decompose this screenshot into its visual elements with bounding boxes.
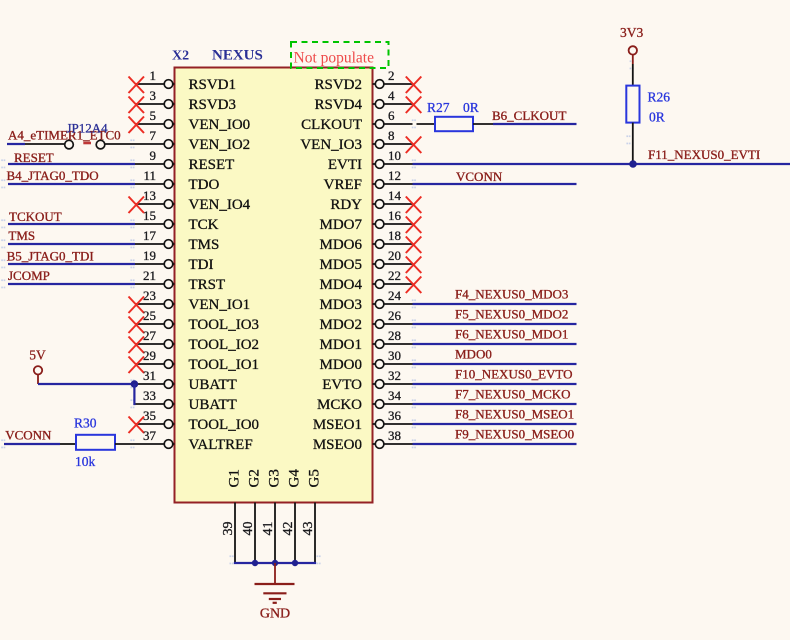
no-connect X pin 4 [406,97,422,114]
pin 34 (MCKO) right [317,388,413,413]
svg-text:B4_JTAG0_TDO: B4_JTAG0_TDO [7,168,99,183]
no-connect X pin 3 [129,97,145,114]
svg-text:13: 13 [143,188,156,203]
resistor R27 lead right [473,123,493,125]
svg-text:F4_NEXUS0_MDO3: F4_NEXUS0_MDO3 [455,287,568,302]
pin 25 (TOOL_IO3) left [135,308,259,333]
wire net B4_JTAG0_TDO [8,183,135,185]
pin 9 (RESET) left [135,148,234,173]
svg-text:TOOL_IO2: TOOL_IO2 [189,337,260,353]
pin 19 (TDI) left [135,248,214,273]
svg-text:21: 21 [143,268,156,283]
junction G2 [252,560,258,566]
svg-text:F6_NEXUS0_MDO1: F6_NEXUS0_MDO1 [455,327,568,342]
jumper JP12A4 open gap mark [83,142,91,145]
svg-text:MSEO0: MSEO0 [313,437,362,453]
svg-text:NEXUS: NEXUS [212,48,263,64]
svg-text:RSVD1: RSVD1 [189,77,237,93]
pin 26 (MDO2) right [319,308,412,333]
no-connect X pin 13 [129,197,145,214]
pin 21 (TRST) left [135,268,225,293]
svg-text:TMS: TMS [189,237,220,253]
pin 15 (TCK) left [135,208,219,233]
svg-text:3V3: 3V3 [620,25,643,40]
svg-text:F11_NEXUS0_EVTI: F11_NEXUS0_EVTI [648,147,760,162]
no-connect X pin 35 [129,417,145,434]
svg-text:10: 10 [388,148,401,163]
wire net TCKOUT [8,223,135,225]
svg-text:EVTI: EVTI [328,157,362,173]
jumper JP12A4 pin 2 [96,140,105,149]
svg-text:TMS: TMS [8,228,35,243]
svg-text:MDO6: MDO6 [319,237,362,253]
svg-text:16: 16 [388,208,402,223]
svg-text:G2: G2 [247,469,263,487]
svg-text:RSVD3: RSVD3 [189,97,237,113]
resistor R26 body [626,86,639,123]
junction R26 / EVTI net [629,160,637,168]
svg-text:11: 11 [143,168,156,183]
svg-text:20: 20 [388,248,401,263]
power port 5V [29,348,46,385]
svg-text:TOOL_IO1: TOOL_IO1 [189,357,260,373]
svg-text:B6_CLKOUT: B6_CLKOUT [492,108,566,123]
svg-text:G5: G5 [307,469,323,487]
svg-text:VEN_IO0: VEN_IO0 [189,117,251,133]
svg-text:MSEO1: MSEO1 [313,417,362,433]
svg-text:12: 12 [388,168,401,183]
svg-text:5V: 5V [29,348,46,363]
svg-text:MDO5: MDO5 [319,257,362,273]
svg-text:RESET: RESET [189,157,235,173]
wire net F10_NEXUS0_EVTO right [413,383,577,385]
svg-text:30: 30 [388,348,401,363]
pin 32 (EVTO) right [322,368,412,393]
svg-text:14: 14 [388,188,402,203]
note box Not populate [291,42,389,68]
pin 17 (TMS) left [135,228,219,253]
svg-text:VALTREF: VALTREF [189,437,253,453]
pin 1 (RSVD1) left [135,68,236,93]
no-connect X pin 23 [129,297,145,314]
svg-text:36: 36 [388,408,402,423]
resistor R30 lead left [60,443,76,445]
wire net JCOMP [8,283,135,285]
svg-text:MDO4: MDO4 [319,277,362,293]
svg-text:B5_JTAG0_TDI: B5_JTAG0_TDI [7,249,94,264]
pin 38 (MSEO0) right [313,428,413,453]
pin 33 (UBATT) left [135,388,237,413]
no-connect X pin 5 [129,117,145,134]
pin 42 (G4) bottom [281,469,303,563]
svg-text:TCKOUT: TCKOUT [9,209,62,224]
wire net RESET [8,163,135,165]
svg-text:JCOMP: JCOMP [8,268,50,283]
svg-text:TCK: TCK [189,217,219,233]
pin 7 (VEN_IO2) left [135,128,250,153]
svg-text:Not populate: Not populate [294,50,375,67]
svg-text:G3: G3 [267,469,283,487]
pin 20 (MDO5) right [319,248,412,273]
no-connect X pin 8 [406,137,422,154]
pin 16 (MDO7) right [319,208,412,233]
svg-text:VCONN: VCONN [456,169,503,184]
svg-text:TRST: TRST [189,277,226,293]
svg-text:1: 1 [150,68,157,83]
junction G3 [272,560,278,566]
svg-text:JP12A4: JP12A4 [67,120,109,135]
svg-text:8: 8 [388,128,395,143]
pin 40 (G2) bottom [241,469,263,563]
wire net VCONN left [4,443,60,445]
svg-text:2: 2 [388,68,395,83]
svg-text:MDO0: MDO0 [455,347,492,362]
svg-text:29: 29 [143,348,156,363]
svg-text:G4: G4 [287,469,303,488]
no-connect X pin 16 [406,217,422,234]
svg-text:UBATT: UBATT [189,377,237,393]
wire net VCONN right [413,183,577,185]
pin 12 (VREF) right [324,168,413,193]
svg-text:6: 6 [388,108,395,123]
svg-text:23: 23 [143,288,156,303]
pin 37 (VALTREF) left [135,428,253,453]
svg-text:UBATT: UBATT [189,397,237,413]
wire branch down to pin 33 [134,384,135,404]
pin 13 (VEN_IO4) left [135,188,251,213]
pin 39 (G1) bottom [221,469,243,563]
svg-text:RSVD2: RSVD2 [314,77,362,93]
svg-text:18: 18 [388,228,401,243]
svg-text:RESET: RESET [14,150,54,165]
wire 3V3 to R26 [632,64,634,86]
svg-text:VEN_IO2: VEN_IO2 [189,137,251,153]
wire net A4_eTIMER1_ETC0 [7,143,25,145]
svg-text:F7_NEXUS0_MCKO: F7_NEXUS0_MCKO [455,387,571,402]
pin 30 (MDO0) right [319,348,412,373]
svg-text:TOOL_IO3: TOOL_IO3 [189,317,260,333]
svg-text:28: 28 [388,328,401,343]
junction G4 [292,560,298,566]
svg-text:31: 31 [143,368,156,383]
pin 10 (EVTI) right [328,148,413,173]
svg-text:3: 3 [150,88,157,103]
svg-text:MDO1: MDO1 [319,337,362,353]
svg-text:34: 34 [388,388,402,403]
svg-text:VEN_IO3: VEN_IO3 [300,137,362,153]
wire ground bus [234,562,316,564]
pin 8 (VEN_IO3) right [300,128,412,153]
svg-text:MDO2: MDO2 [319,317,362,333]
no-connect X pin 29 [129,357,145,374]
svg-text:MDO7: MDO7 [319,217,362,233]
svg-text:TDI: TDI [189,257,214,273]
svg-text:19: 19 [143,248,156,263]
svg-text:0R: 0R [649,110,665,125]
wire net F7_NEXUS0_MCKO right [413,403,577,405]
svg-text:33: 33 [143,388,156,403]
svg-text:24: 24 [388,288,402,303]
svg-text:39: 39 [221,522,236,536]
svg-text:TOOL_IO0: TOOL_IO0 [189,417,260,433]
svg-text:38: 38 [388,428,401,443]
svg-text:32: 32 [388,368,401,383]
svg-text:MCKO: MCKO [317,397,362,413]
svg-text:X2: X2 [172,49,189,64]
wire net F11_NEXUS0_EVTI [413,163,790,165]
no-connect X pin 18 [406,237,422,254]
svg-text:40: 40 [241,522,256,536]
no-connect X pin 20 [406,257,422,274]
svg-text:TDO: TDO [189,177,220,193]
svg-text:MDO3: MDO3 [319,297,362,313]
svg-text:MDO0: MDO0 [319,357,362,373]
svg-text:F5_NEXUS0_MDO2: F5_NEXUS0_MDO2 [455,307,568,322]
svg-text:0R: 0R [463,100,479,115]
pin 2 (RSVD2) right [314,68,412,93]
svg-text:26: 26 [388,308,402,323]
wire net TMS [8,243,135,245]
svg-text:27: 27 [143,328,157,343]
wire net B6_CLKOUT [493,123,577,125]
junction at pin 31 branch [131,380,139,388]
wire net MDO0 right [413,363,577,365]
pin 29 (TOOL_IO1) left [135,348,259,373]
svg-text:VEN_IO1: VEN_IO1 [189,297,251,313]
jumper JP12A4 pin 1 lead [25,143,66,145]
wire net F5_NEXUS0_MDO2 right [413,323,577,325]
pin 11 (TDO) left [135,168,219,193]
svg-text:VREF: VREF [324,177,362,193]
pin 14 (RDY) right [330,188,412,213]
svg-text:43: 43 [301,522,316,536]
wire net F4_NEXUS0_MDO3 right [413,303,577,305]
wire R26 to net [632,123,634,164]
svg-text:R26: R26 [648,90,671,105]
svg-text:VEN_IO4: VEN_IO4 [189,197,251,213]
wire net F9_NEXUS0_MSEO0 right [413,443,577,445]
svg-text:37: 37 [143,428,157,443]
svg-text:R27: R27 [427,100,450,115]
pin 24 (MDO3) right [319,288,412,313]
pin 3 (RSVD3) left [135,88,236,113]
svg-text:5: 5 [150,108,157,123]
svg-text:15: 15 [143,208,156,223]
pin 41 (G3) bottom [261,469,283,563]
pin 6 (CLKOUT) right [301,108,412,133]
svg-text:G1: G1 [227,469,243,487]
pin 28 (MDO1) right [319,328,412,353]
wire 5V to pin 31 [38,383,135,385]
pin 27 (TOOL_IO2) left [135,328,259,353]
resistor R30 lead right [115,443,135,445]
ground GND symbol [255,563,295,603]
pin 22 (MDO4) right [319,268,412,293]
svg-text:F8_NEXUS0_MSEO1: F8_NEXUS0_MSEO1 [455,407,574,422]
svg-text:7: 7 [150,128,157,143]
power port 3V3 [620,25,643,64]
pin 43 (G5) bottom [301,469,323,563]
no-connect X pin 27 [129,337,145,354]
wire net F6_NEXUS0_MDO1 right [413,343,577,345]
connector X2 NEXUS body [175,68,373,503]
no-connect X pin 25 [129,317,145,334]
svg-text:RDY: RDY [330,197,362,213]
pin 31 (UBATT) left [135,368,237,393]
pin 23 (VEN_IO1) left [135,288,250,313]
svg-text:9: 9 [150,148,157,163]
svg-text:F10_NEXUS0_EVTO: F10_NEXUS0_EVTO [455,367,573,382]
svg-text:RSVD4: RSVD4 [314,97,362,113]
svg-text:22: 22 [388,268,401,283]
wire net F8_NEXUS0_MSEO1 right [413,423,577,425]
svg-text:10k: 10k [75,454,96,469]
svg-text:EVTO: EVTO [322,377,362,393]
svg-text:4: 4 [388,88,395,103]
svg-text:25: 25 [143,308,156,323]
pin 18 (MDO6) right [319,228,412,253]
svg-text:GND: GND [260,607,290,622]
pin 5 (VEN_IO0) left [135,108,250,133]
resistor R27 body [435,117,473,131]
jumper JP12A4 pin 2 lead [104,143,135,145]
svg-text:F9_NEXUS0_MSEO0: F9_NEXUS0_MSEO0 [455,427,574,442]
no-connect X pin 2 [406,77,422,94]
resistor R30 body [76,435,115,450]
jumper JP12A4 pin 1 [65,140,74,149]
pin 35 (TOOL_IO0) left [135,408,259,433]
svg-text:35: 35 [143,408,156,423]
no-connect X pin 22 [406,277,422,294]
svg-text:17: 17 [143,228,157,243]
no-connect X pin 14 [406,197,422,214]
svg-text:42: 42 [281,522,296,536]
wire net B5_JTAG0_TDI [8,263,135,265]
svg-text:41: 41 [261,522,276,536]
svg-text:CLKOUT: CLKOUT [301,117,362,133]
svg-text:R30: R30 [74,416,97,431]
resistor R27 lead left [417,123,436,125]
svg-text:VCONN: VCONN [5,428,52,443]
no-connect X pin 1 [129,77,145,94]
pin 4 (RSVD4) right [314,88,412,113]
pin 36 (MSEO1) right [313,408,413,433]
